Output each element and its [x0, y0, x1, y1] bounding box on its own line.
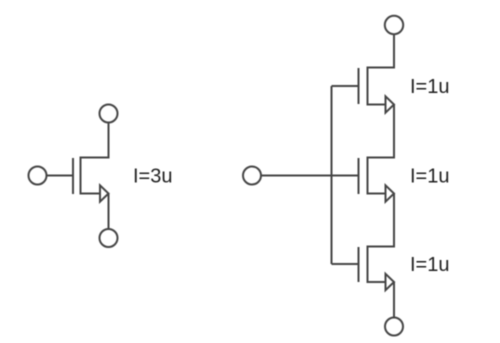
pin T2 (top terminal, right stack)	[385, 16, 403, 34]
wire M1 source to M2 drain	[368, 105, 395, 158]
transistor M0 channel	[80, 157, 82, 195]
transistor M1 channel	[367, 67, 369, 106]
transistor M3 source arrow	[386, 274, 395, 290]
svg-text:I=1u: I=1u	[410, 254, 449, 276]
transistor M0 source arrow	[100, 185, 109, 201]
pin S1 (source terminal, left device)	[100, 229, 118, 247]
wire gate stub M3	[332, 263, 359, 265]
transistor M1 gate bar	[358, 68, 360, 104]
transistor M3 gate bar	[358, 247, 360, 282]
pin G1 (gate terminal, left device)	[29, 167, 47, 185]
wire gate M0	[46, 175, 73, 177]
transistor M0 gate bar	[72, 158, 74, 194]
transistor M2 source stub	[368, 193, 386, 195]
wire source M0	[108, 194, 110, 230]
wire gate bus (right stack)	[331, 86, 333, 264]
pin S3 (bottom terminal, right stack)	[385, 318, 403, 336]
wire gate stub M1	[332, 85, 359, 87]
wire M3 source to bottom pin	[393, 282, 395, 318]
wire M2 source to M3 drain	[368, 194, 395, 247]
svg-text:I=1u: I=1u	[410, 76, 449, 98]
transistor M2 channel	[367, 157, 369, 195]
pin G2 (gate terminal, right stack)	[243, 167, 261, 185]
wire drain M0	[81, 122, 109, 157]
transistor M2 gate bar	[358, 158, 360, 194]
transistor M3 source stub	[368, 281, 386, 283]
transistor M0 source stub	[81, 193, 101, 195]
pin T1 (drain terminal, left device)	[100, 105, 118, 123]
transistor M2 source arrow	[386, 185, 395, 201]
svg-text:I=1u: I=1u	[410, 166, 449, 188]
wire drain M1	[368, 34, 395, 67]
svg-text:I=3u: I=3u	[133, 166, 172, 188]
transistor M1 source arrow	[386, 96, 395, 112]
wire gate input to M2	[261, 175, 359, 177]
transistor M3 channel	[367, 246, 369, 284]
transistor M1 source stub	[368, 104, 386, 106]
